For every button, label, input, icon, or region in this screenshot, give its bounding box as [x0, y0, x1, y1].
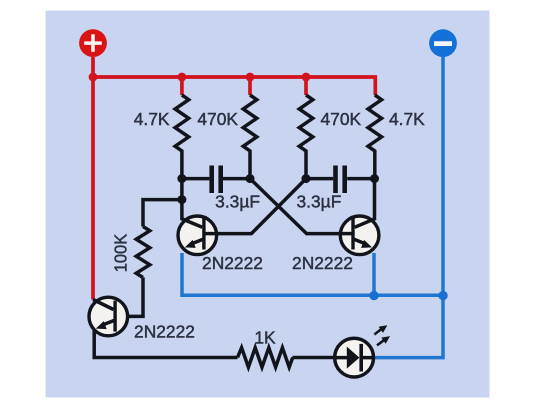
svg-text:1K: 1K — [254, 328, 276, 348]
node: red junction at + column — [89, 73, 98, 82]
svg-text:3.3µF: 3.3µF — [297, 192, 342, 212]
node: red junction R3 — [302, 73, 311, 82]
wire: red stub R2 top — [248, 77, 252, 95]
resistor R6 1K — [238, 348, 293, 368]
svg-text:4.7K: 4.7K — [134, 109, 170, 129]
resistor R1 4.7K — [175, 95, 189, 179]
wire: cross coupling C1 right to Q2 base — [250, 179, 340, 234]
wire: red stub R1 top — [180, 77, 184, 95]
svg-text:3.3µF: 3.3µF — [215, 192, 260, 212]
node: blue junction Q2 emitter — [369, 291, 378, 300]
wire: blue Q1 emitter bus — [182, 253, 443, 295]
svg-text:4.7K: 4.7K — [389, 109, 425, 129]
node: blue junction - rail — [438, 291, 447, 300]
wire: Q3 emitter drop to bottom run — [94, 330, 237, 358]
wire: 100K bottom lead to Q3 base — [116, 278, 143, 317]
svg-text:2N2222: 2N2222 — [292, 253, 353, 273]
svg-text:2N2222: 2N2222 — [202, 253, 263, 273]
terminal: + positive supply — [79, 29, 107, 57]
terminal: - negative supply — [429, 29, 457, 57]
resistor R5 100K — [136, 227, 150, 278]
svg-text:2N2222: 2N2222 — [134, 322, 195, 342]
resistor R2 470K — [243, 95, 257, 179]
capacitor C2 3.3uF — [306, 166, 375, 194]
panel background — [46, 11, 490, 398]
LED D1 — [335, 325, 390, 377]
wire: red stub R3 top — [304, 77, 308, 95]
wire: cross coupling C2 left to Q1 base — [218, 179, 306, 234]
transistor Q3 2N2222 — [89, 297, 128, 336]
transistor Q1 2N2222 — [178, 200, 219, 255]
svg-text:470K: 470K — [197, 109, 238, 129]
wire: 100K top lead — [143, 200, 182, 227]
node: junction C2 right — [370, 174, 379, 183]
wire: red + rail vertical — [91, 57, 95, 300]
node: junction C1 right — [246, 174, 255, 183]
wire: blue Q2 emitter drop — [372, 253, 376, 295]
capacitor C1 3.3uF — [182, 166, 250, 194]
node: junction Q1 collector / 100K — [177, 195, 186, 204]
node: red junction R1 — [178, 73, 187, 82]
wire: red top rail with corner to R4 — [93, 77, 375, 95]
svg-text:100K: 100K — [111, 233, 131, 272]
node: red junction R2 — [246, 73, 255, 82]
wire: blue negative rail vertical + bottom run to LED — [375, 57, 443, 358]
wire: 1K to LED — [293, 356, 335, 360]
node: junction C1 left — [177, 174, 186, 183]
transistor Q2 2N2222 — [339, 179, 379, 255]
wire: Q1 collector riser between junctions — [180, 179, 184, 200]
node: junction C2 left — [302, 174, 311, 183]
resistor R3 470K — [299, 95, 313, 179]
svg-text:470K: 470K — [321, 109, 362, 129]
resistor R4 4.7K — [368, 95, 382, 179]
